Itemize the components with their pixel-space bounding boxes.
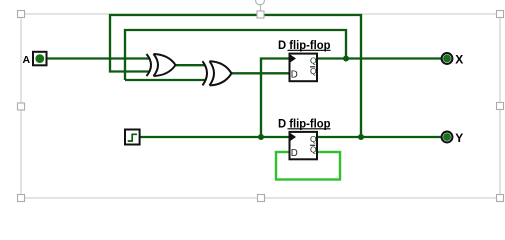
selection frame bbox=[21, 14, 500, 198]
clock source bbox=[125, 130, 140, 145]
wire: clock line to flip-flop clocks bbox=[140, 136, 290, 138]
wire: XOR1 output to XOR2 upper input bbox=[175, 64, 205, 66]
selection ghost rect (bright green) bbox=[276, 152, 340, 180]
rotation handle bbox=[256, 0, 265, 10]
XOR gate 1 bbox=[147, 54, 176, 76]
D flip-flop U1 (top) bbox=[278, 38, 331, 81]
svg-text:Q: Q bbox=[310, 134, 317, 144]
input pin A bbox=[23, 52, 47, 66]
wire: inner feedback loop (top run, drop to top Q junction) bbox=[125, 30, 346, 80]
wire: A to XOR1 upper input bbox=[47, 15, 442, 137]
wire: bottom FF Q to Y output bbox=[317, 136, 442, 138]
svg-text:Q: Q bbox=[310, 66, 317, 76]
wire: outer feedback loop (XOR1 lower input, top run, right drop to bottom Q) bbox=[110, 15, 361, 137]
svg-text:D: D bbox=[291, 70, 298, 81]
selection handles bbox=[18, 11, 504, 202]
XOR gate 2 bbox=[203, 61, 232, 85]
wire: XOR2 lower input bbox=[125, 79, 205, 81]
svg-text:X: X bbox=[455, 52, 463, 66]
node: junction on bottom Q wire bbox=[358, 134, 364, 140]
node: junction clock branch bbox=[258, 134, 264, 140]
svg-text:D: D bbox=[291, 148, 298, 159]
svg-text:Q: Q bbox=[310, 55, 317, 65]
svg-text:Y: Y bbox=[455, 131, 463, 145]
output pin X bbox=[442, 52, 464, 66]
D flip-flop U2 (bottom) bbox=[278, 117, 331, 160]
output pin Y bbox=[442, 131, 464, 145]
wire: XOR2 output to top FF D bbox=[231, 72, 290, 74]
svg-text:Q: Q bbox=[310, 145, 317, 155]
node: junction on top Q wire bbox=[343, 56, 349, 62]
svg-text:A: A bbox=[23, 54, 31, 66]
wire: top FF Q to X output bbox=[317, 57, 442, 59]
